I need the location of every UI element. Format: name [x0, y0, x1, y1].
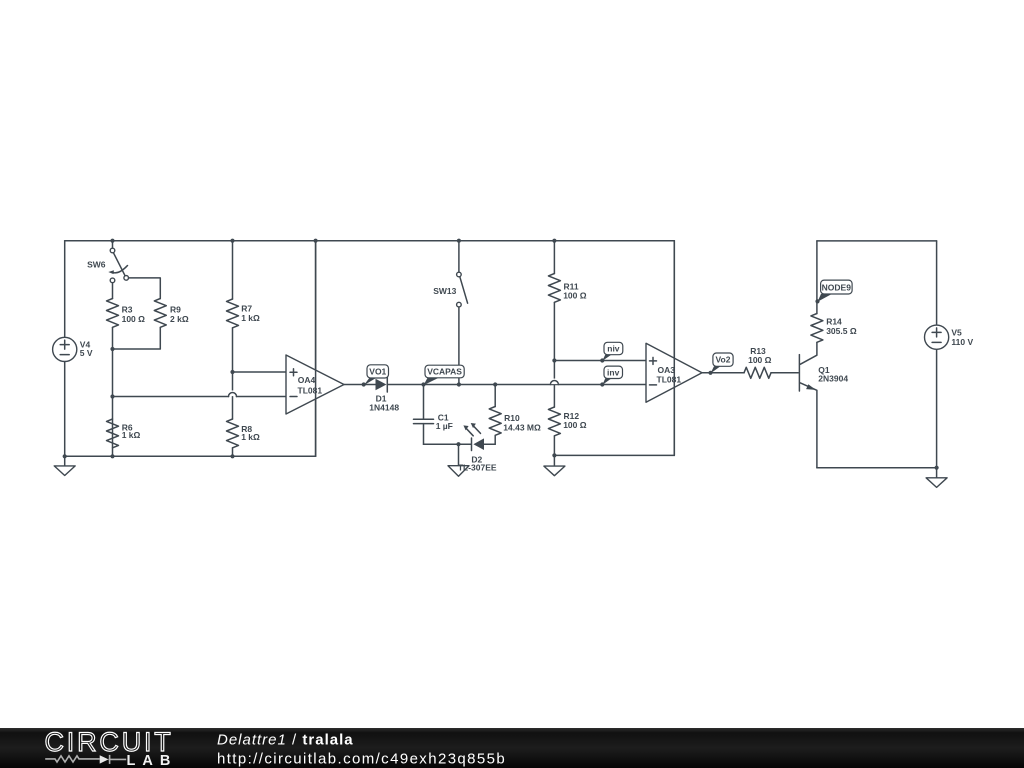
svg-text:14.43 MΩ: 14.43 MΩ — [503, 422, 541, 432]
svg-text:LAB: LAB — [127, 753, 178, 768]
svg-text:OA3: OA3 — [658, 365, 676, 375]
svg-text:100 Ω: 100 Ω — [563, 420, 587, 430]
svg-text:1 kΩ: 1 kΩ — [122, 430, 141, 440]
svg-text:OA4: OA4 — [298, 375, 316, 385]
svg-text:100 Ω: 100 Ω — [122, 314, 146, 324]
svg-text:niv: niv — [607, 344, 620, 354]
svg-text:SW6: SW6 — [87, 260, 106, 270]
svg-text:NODE9: NODE9 — [822, 282, 852, 292]
svg-text:SW13: SW13 — [433, 286, 456, 296]
svg-text:VO1: VO1 — [369, 366, 386, 376]
svg-text:1 µF: 1 µF — [436, 421, 453, 431]
svg-text:TL081: TL081 — [657, 375, 682, 385]
svg-text:100 Ω: 100 Ω — [563, 290, 587, 300]
svg-text:1 kΩ: 1 kΩ — [241, 432, 260, 442]
svg-text:1 kΩ: 1 kΩ — [241, 313, 260, 323]
svg-text:2 kΩ: 2 kΩ — [170, 314, 189, 324]
svg-text:5 V: 5 V — [80, 348, 93, 358]
svg-text:http://circuitlab.com/c49exh23: http://circuitlab.com/c49exh23q855b — [217, 751, 506, 768]
svg-text:1N4148: 1N4148 — [369, 403, 399, 413]
svg-text:TL081: TL081 — [298, 386, 323, 396]
svg-text:100 Ω: 100 Ω — [748, 355, 772, 365]
svg-text:305.5 Ω: 305.5 Ω — [826, 326, 857, 336]
svg-text:inv: inv — [607, 367, 620, 377]
svg-text:2N3904: 2N3904 — [818, 373, 848, 383]
svg-text:110 V: 110 V — [951, 337, 973, 347]
svg-text:TL-307EE: TL-307EE — [458, 463, 497, 473]
svg-text:Vo2: Vo2 — [716, 355, 731, 365]
svg-text:VCAPAS: VCAPAS — [427, 366, 462, 376]
svg-text:Delattre1 / tralala: Delattre1 / tralala — [217, 732, 354, 749]
